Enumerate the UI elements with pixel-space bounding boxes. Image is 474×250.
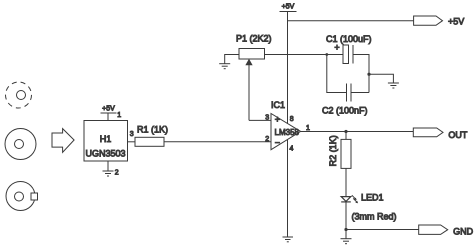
ground at capacitors [388,83,399,88]
wire R2 to LED1 [345,168,347,196]
wire caps to ground [369,74,393,83]
motion block arrow [52,129,74,153]
svg-text:R1 (1K): R1 (1K) [137,125,168,135]
svg-text:3: 3 [130,131,134,138]
magnet top view (dashed circle) [6,82,32,108]
junction at C2 branch [325,53,328,56]
svg-text:3: 3 [265,115,269,122]
wire GND node to terminal [346,229,419,231]
svg-text:+5V: +5V [102,106,115,113]
svg-text:C2 (100nF): C2 (100nF) [322,106,368,116]
OUT terminal [413,128,468,140]
svg-text:−: − [275,138,280,148]
wire IC1 pin 4 down to ground [287,140,289,237]
wire P1 wiper to IC1 pin 3 [249,119,271,121]
svg-text:IC1: IC1 [271,100,285,110]
wire P1 left to ground [225,55,239,64]
svg-text:1: 1 [117,112,121,119]
svg-text:(3mm Red): (3mm Red) [352,212,397,222]
svg-text:+5V: +5V [282,4,295,11]
magnet view with pole marker [6,182,38,211]
svg-text:LM358: LM358 [275,128,300,137]
wire C2 right to corner [351,92,369,94]
junction at GND node [344,228,347,231]
svg-text:C1 (100uF): C1 (100uF) [326,34,372,44]
ground at LED cathode [341,239,352,244]
magnet face view [5,129,36,160]
svg-text:2: 2 [265,136,269,143]
wire P1 right to +5V rail [265,54,288,56]
ground at P1 [219,64,230,69]
svg-text:8: 8 [290,116,294,123]
power +5V at H1 pin 1 [101,106,117,121]
svg-text:+: + [334,43,339,53]
potentiometer P1 [236,34,272,121]
ground at H1 pin 2 [103,171,114,176]
svg-text:UGN3503: UGN3503 [85,149,125,159]
svg-text:OUT: OUT [448,130,468,140]
GND terminal [419,225,474,236]
junction at R2 top [344,130,347,133]
wire C2 branch left side [327,55,347,93]
svg-text:P1 (2K2): P1 (2K2) [236,34,272,44]
wire GND node to ground symbol [345,230,347,239]
LED LED1 [341,193,396,222]
+5V top rail wire to terminal [288,20,414,22]
svg-text:+5V: +5V [448,17,464,27]
wire OUT node down to R2 [345,132,347,140]
svg-text:+: + [275,115,280,125]
resistor R2 [328,135,351,168]
wire H1 pin 2 to ground [107,161,109,171]
wire H1 pin3 to R1 [128,141,136,143]
svg-text:GND: GND [453,226,474,236]
wire LED1 cathode down [345,202,347,230]
wire R1 to IC1 pin 2 [164,141,271,143]
svg-text:1: 1 [306,125,310,132]
resistor R1 [135,125,168,147]
wire IC1 output to OUT terminal [301,131,414,133]
svg-text:H1: H1 [100,134,112,144]
svg-text:2: 2 [115,169,119,176]
+5V output terminal [414,16,465,27]
ground at IC1 pin 4 [283,237,294,242]
sensor H1 UGN3503 [84,121,128,162]
wire rail to C1 [288,54,344,56]
capacitor C2 [322,84,368,116]
wire C1 right to corner [353,55,369,93]
+5V vertical rail down to IC1 pin 8 [287,12,289,124]
op-amp IC1 LM358 [271,100,301,150]
svg-text:LED1: LED1 [361,193,384,203]
svg-text:4: 4 [290,146,294,153]
svg-text:R2 (1K): R2 (1K) [328,135,338,166]
capacitor C1 (polarized) [326,34,372,64]
power +5V symbol top [280,4,297,12]
junction at cap ground tap [367,73,370,76]
